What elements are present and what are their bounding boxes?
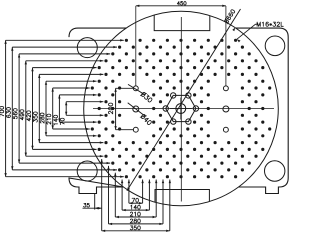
- bolt-circle hole 1: [193, 106, 198, 111]
- label 210 bottom: [130, 212, 140, 216]
- arrow 140 right: [146, 209, 150, 211]
- arrow 280 right: [159, 223, 163, 225]
- hole D40 middle left: [133, 106, 139, 112]
- arrow 70 right-up: [141, 180, 143, 184]
- arrow 210 left: [115, 216, 119, 218]
- arrow 70 left: [129, 202, 133, 204]
- horizontal centerline: [93, 108, 274, 110]
- tie-bar hole top-right: [265, 36, 285, 56]
- tie-bar hole bottom-left: [77, 161, 97, 181]
- label D660: [224, 9, 236, 24]
- arrow M16: [237, 39, 241, 42]
- hexagon linking bolt circle holes: [166, 95, 196, 121]
- dimension 560 bracket: [18, 54, 20, 163]
- top slot notch: [154, 15, 210, 31]
- arrow 210 left-up: [114, 173, 116, 177]
- arrow 210 up: [52, 88, 54, 92]
- aux centerline right (450 extension): [225, 6, 227, 86]
- label 450: [177, 2, 186, 5]
- arrow 280 right-up: [162, 180, 164, 184]
- dimension 700 bracket: [5, 40, 7, 176]
- bolt-circle hole 2: [186, 119, 191, 124]
- dimension 200: [115, 88, 117, 129]
- arrow 280 bottom: [93, 135, 97, 137]
- label 490: [20, 110, 24, 120]
- arrow 140 down: [58, 119, 60, 123]
- arrow 350 right-up: [169, 180, 171, 184]
- dimension 490 bracket: [25, 61, 27, 156]
- arrow 420 up: [31, 68, 33, 72]
- dimension 280 bracket: [45, 81, 47, 136]
- arrow 210 top: [86, 87, 90, 89]
- arrow 280 down: [45, 132, 47, 136]
- arrow 210 down: [52, 125, 54, 129]
- leader D30: [128, 84, 145, 94]
- arrow 350 top: [100, 73, 104, 75]
- arrow 350 left-up: [101, 159, 103, 163]
- arrow 140 left-up: [121, 180, 123, 184]
- mounting hole pattern M16 grid dots: [91, 39, 272, 179]
- hub crosshair vertical: [180, 98, 182, 120]
- arrow 490 up: [25, 61, 27, 65]
- arrow 280 left: [109, 223, 113, 225]
- leader D660 diagonal: [127, 9, 241, 191]
- arrow 350 down: [38, 139, 40, 143]
- arrow 700 top: [120, 39, 124, 41]
- label 350: [33, 112, 37, 122]
- arrow 350 up: [38, 74, 40, 78]
- dimension 140 bottom: [122, 209, 149, 211]
- arrow 280 up: [45, 81, 47, 85]
- arrow 630 bottom: [113, 169, 117, 171]
- label 70 bottom: [132, 198, 138, 202]
- dimension 35: [94, 194, 96, 210]
- arrow 210 right: [153, 216, 157, 218]
- dimension 140 bracket: [58, 95, 60, 122]
- dimension 450: [136, 5, 226, 7]
- hole D30 top right: [223, 86, 228, 91]
- arrow 630 up: [11, 47, 13, 51]
- dimension 350 bottom: [102, 230, 170, 232]
- hole D30 bottom left: [133, 127, 138, 132]
- bolt-circle hole 4: [163, 106, 168, 111]
- arrow 350 bottom: [100, 141, 104, 143]
- label 350 bottom: [130, 226, 140, 230]
- arrow 490 top: [100, 60, 104, 62]
- arrow 420 down: [31, 146, 33, 150]
- label 200: [109, 103, 113, 114]
- bolt-circle hole 5: [171, 93, 176, 98]
- bottom slot notch: [155, 190, 209, 203]
- hub crosshair horizontal: [170, 108, 192, 110]
- vertical centerline: [180, 17, 182, 202]
- arrow 280 top: [93, 80, 97, 82]
- arrow 70 right: [139, 202, 143, 204]
- hole D30 bottom right: [223, 127, 228, 132]
- arrow 350 left: [102, 230, 106, 232]
- arrow 140 left: [122, 209, 126, 211]
- dimension 210 bracket: [52, 88, 54, 129]
- leader M16x32L: [237, 24, 256, 39]
- label D30: [140, 91, 152, 103]
- arrow 350 right: [166, 230, 170, 232]
- arrow 700 up: [4, 40, 6, 44]
- dimension 630 bracket: [11, 47, 13, 170]
- arrow 420 bottom: [93, 148, 97, 150]
- arrow 210 right-up: [155, 180, 157, 184]
- arrow 560 down: [18, 160, 20, 164]
- arrow 700 bottom: [120, 176, 124, 178]
- arrow 140 right-up: [148, 180, 150, 184]
- label M16x32L: [257, 22, 283, 26]
- label 210: [47, 114, 51, 124]
- label 280: [40, 113, 44, 123]
- dimension 70 bracket: [65, 102, 67, 116]
- arrow 490 bottom: [100, 155, 104, 157]
- arrow 630 top: [113, 46, 117, 48]
- label 140 bottom: [131, 205, 141, 209]
- arrow 560 up: [18, 54, 20, 58]
- arrow 140 bottom: [93, 121, 97, 123]
- label 420: [27, 111, 31, 121]
- central locating hole: [176, 104, 186, 114]
- hole D40 middle right: [223, 106, 229, 112]
- tie-bar hole bottom-right: [265, 161, 285, 181]
- arrow 210 bottom: [86, 128, 90, 130]
- arrow 70 left-up: [128, 180, 130, 184]
- label 35: [84, 203, 90, 207]
- bolt-circle hole 6: [186, 93, 191, 98]
- label 700: [0, 106, 4, 116]
- dimension 210 bottom: [115, 216, 156, 218]
- arrow 70 bottom: [100, 114, 104, 116]
- label D40: [140, 113, 152, 125]
- dimension 420 bracket: [32, 68, 34, 150]
- label 630: [7, 108, 11, 118]
- label 560: [13, 109, 17, 119]
- bolt-circle hole 3: [171, 119, 176, 124]
- tie-bar hole top-left: [77, 38, 97, 58]
- plate outline (rounded rect with feet tabs, edges clipped by circular boss): [69, 28, 288, 193]
- arrow 70 down: [65, 112, 67, 116]
- arrow D660 bottom: [127, 187, 130, 191]
- arrow 560 top: [107, 53, 111, 55]
- arrow 70 up: [65, 102, 67, 106]
- dimension 280 bottom: [109, 223, 164, 225]
- arrow 140 top: [93, 94, 97, 96]
- mold space circle D660 (full): [84, 11, 279, 206]
- dimension 350 bracket: [38, 74, 40, 142]
- arrow 70 top: [100, 101, 104, 103]
- arrow 630 down: [11, 166, 13, 170]
- leader D40: [128, 103, 146, 117]
- hole D30 top left: [133, 86, 138, 91]
- label 70: [60, 118, 64, 124]
- label 140: [54, 115, 58, 125]
- arrow 280 left-up: [107, 166, 109, 170]
- arrow 560 bottom: [107, 162, 111, 164]
- arrow 420 top: [93, 66, 97, 68]
- dimension 70 bottom: [129, 202, 143, 204]
- arrow 490 down: [25, 153, 27, 157]
- arrow 140 up: [58, 95, 60, 99]
- arrow 700 down: [4, 173, 6, 177]
- arrow D660 top: [232, 28, 235, 32]
- aux centerline left (450 extension): [135, 6, 137, 86]
- label 280 bottom: [130, 219, 140, 223]
